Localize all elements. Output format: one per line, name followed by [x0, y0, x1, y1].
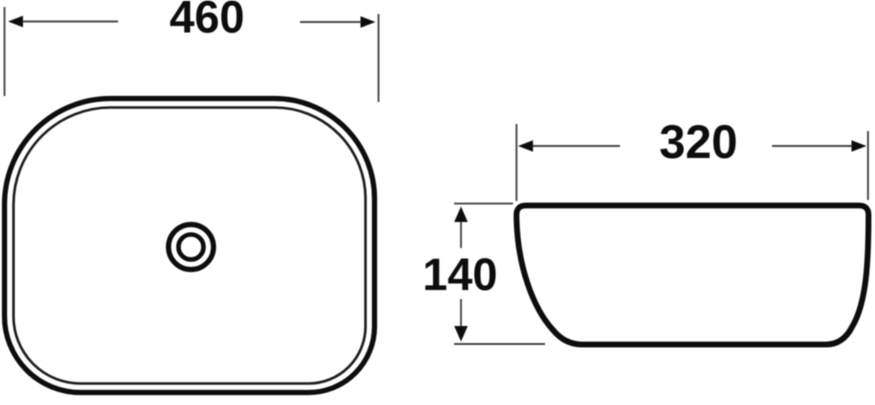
dim 140 top extension line	[454, 203, 513, 205]
dim 460 right line	[300, 21, 362, 23]
dim 320 right arrow	[852, 140, 867, 151]
basin top view outer rim	[5, 98, 375, 392]
dim 320 left line	[524, 145, 620, 147]
basin top view inner rim line	[14, 107, 366, 383]
dim 320 right line	[772, 145, 852, 147]
dim 460 left extension line	[4, 7, 6, 96]
dim 460 left arrow	[8, 16, 23, 27]
drain inner circle	[179, 235, 204, 260]
dim 320 left extension line	[516, 124, 518, 201]
dim 320 left arrow	[518, 140, 533, 151]
dim 460 right arrow	[361, 16, 376, 27]
svg-text:320: 320	[659, 115, 737, 168]
svg-text:460: 460	[169, 0, 244, 43]
dim 460 left line	[20, 21, 118, 23]
svg-text:140: 140	[422, 249, 497, 300]
dim 140 up arrow	[454, 207, 468, 223]
dim 140 down arrow	[454, 326, 468, 342]
dim 320 right extension line	[867, 131, 869, 200]
dim 140 upper line	[460, 222, 462, 248]
dim 140 lower line	[460, 299, 462, 327]
basin side view outline	[517, 206, 869, 345]
dim 140 bottom extension line	[454, 343, 545, 345]
drain outer circle	[169, 225, 214, 270]
dim 460 right extension line	[378, 14, 380, 102]
